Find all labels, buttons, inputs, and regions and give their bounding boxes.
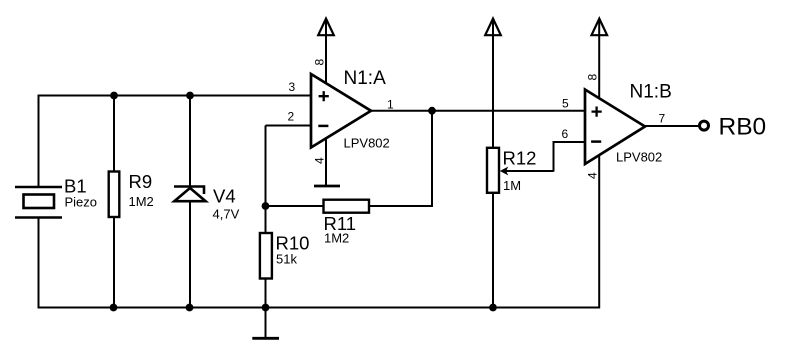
node output junction	[428, 107, 436, 115]
resistor R9	[109, 171, 154, 217]
node bottom rail V4	[186, 304, 194, 312]
wire R10 top	[265, 206, 267, 233]
wire output rail pin1 to pin5	[371, 110, 585, 112]
svg-text:R12: R12	[503, 148, 537, 169]
zener diode V4	[174, 186, 240, 222]
svg-text:4,7V: 4,7V	[213, 207, 240, 222]
potentiometer R12	[487, 148, 554, 194]
power VCC arrow (R12 top)	[485, 19, 501, 36]
power VCC arrow (N1:A pin 8)	[318, 19, 334, 36]
wire N1:B pin 4	[598, 155, 600, 309]
svg-text:RB0: RB0	[719, 114, 767, 141]
wire pin 7 output	[645, 125, 699, 127]
wire R12 bottom	[492, 193, 494, 308]
wire V4 branch top	[189, 96, 191, 188]
svg-text:4: 4	[586, 172, 600, 179]
svg-text:8: 8	[586, 74, 600, 81]
wire top rail to pin 3	[39, 95, 312, 97]
wire R10 bottom	[265, 279, 267, 308]
resistor R11	[324, 200, 370, 246]
ground (bottom rail)	[252, 308, 279, 339]
power VCC arrow (N1:B pin 8)	[592, 19, 608, 36]
wire B1 bottom to bottom rail	[38, 217, 40, 309]
svg-text:1M2: 1M2	[324, 231, 349, 246]
svg-text:51k: 51k	[276, 252, 297, 267]
resistor R10	[260, 233, 310, 279]
svg-text:LPV802: LPV802	[344, 136, 390, 151]
svg-text:R9: R9	[129, 171, 153, 192]
node bottom rail B1/R9	[110, 304, 118, 312]
ground (N1:A pin 4)	[314, 185, 340, 188]
wire bottom ground rail	[38, 307, 601, 309]
svg-text:2: 2	[288, 110, 295, 124]
wire wiper riser to pin 6	[553, 142, 555, 172]
svg-text:5: 5	[562, 97, 569, 111]
svg-text:B1: B1	[64, 175, 87, 196]
node bottom rail R12	[489, 304, 497, 312]
wire N1:A pin 4	[325, 139, 327, 187]
wire R9 branch bottom	[113, 217, 115, 308]
svg-text:N1:B: N1:B	[630, 82, 672, 103]
wire R12 top riser	[492, 20, 494, 148]
op-amp N1:A	[288, 59, 395, 165]
wire N1:B pin 8	[598, 20, 600, 99]
svg-text:LPV802: LPV802	[616, 150, 662, 165]
svg-text:1: 1	[387, 98, 394, 112]
node feedback junction	[262, 202, 270, 210]
svg-text:3: 3	[289, 80, 296, 94]
wire N1:A pin 8	[325, 20, 327, 84]
svg-text:R10: R10	[276, 233, 310, 254]
svg-text:1M: 1M	[503, 178, 521, 193]
node bottom rail R10/gnd	[262, 304, 270, 312]
wire feedback riser to output node	[431, 111, 433, 207]
wire feedback node to R11	[266, 205, 325, 207]
node top rail R9	[110, 92, 118, 100]
node top rail V4	[186, 92, 194, 100]
wire R11 right to output	[369, 205, 432, 207]
wire R9 branch top	[113, 96, 115, 173]
svg-text:6: 6	[562, 127, 569, 141]
wire V4 branch bottom	[189, 201, 191, 308]
svg-text:4: 4	[313, 157, 327, 164]
wire pin 6 stub	[553, 141, 586, 143]
svg-text:7: 7	[659, 112, 666, 126]
wire left drop to B1 top	[38, 95, 40, 188]
op-amp N1:B	[562, 74, 672, 180]
svg-text:8: 8	[313, 59, 327, 66]
wire pin2 stub	[266, 125, 312, 127]
svg-text:Piezo: Piezo	[65, 195, 98, 210]
svg-text:V4: V4	[213, 186, 236, 207]
piezo B1	[15, 175, 97, 217]
svg-text:N1:A: N1:A	[344, 68, 387, 89]
svg-text:1M2: 1M2	[129, 194, 154, 209]
wire feedback drop	[265, 126, 267, 207]
terminal RB0	[700, 114, 767, 141]
